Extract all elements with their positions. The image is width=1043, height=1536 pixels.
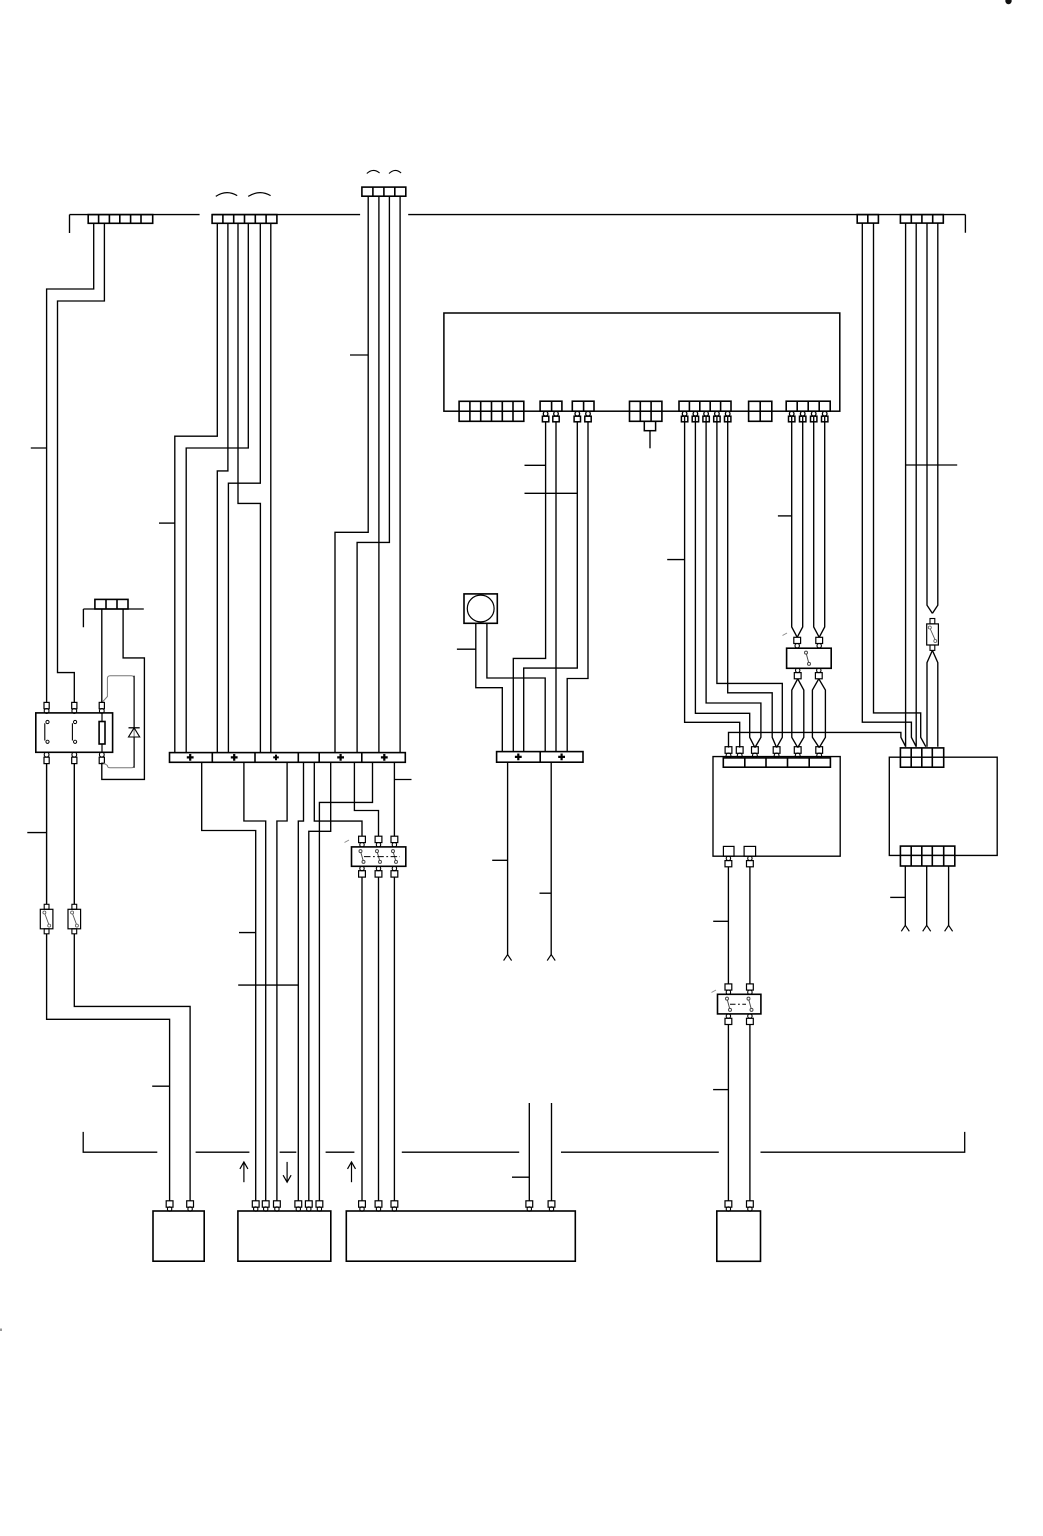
relay R3 terminals bottom <box>796 668 800 672</box>
wire fuse F3 split to BR <box>927 650 932 746</box>
ECU block B4 <box>630 401 662 421</box>
wire B5 pin4 to BL terminal T4 <box>717 417 782 748</box>
leader tick B5 pin1 wire <box>667 559 684 561</box>
relay R2 box <box>352 847 406 866</box>
wire BR out 1 open end <box>904 866 906 925</box>
BL bottom cells <box>723 846 734 856</box>
leader tick R2 out <box>394 779 411 781</box>
gauge M1 box <box>464 594 497 623</box>
wire C5 pin2 to BR cell2 <box>915 223 917 747</box>
wire B5 pin5 to BL terminal T4 <box>728 417 777 748</box>
wire J1-a to box G2 <box>202 762 256 1201</box>
leader line crossing wires <box>238 984 298 986</box>
wire BR out 3 open end <box>948 866 950 925</box>
connector block C3 above bus <box>362 187 406 196</box>
wire stub under C6 <box>83 609 143 627</box>
wire J2 right open end <box>550 762 552 954</box>
page mark left edge <box>0 1329 2 1332</box>
terminal above relay R1 pin1 <box>44 702 49 708</box>
relay R2 contacts <box>359 850 362 853</box>
wire stub from B4 <box>649 431 651 449</box>
J1 plus mark 3 <box>273 755 279 761</box>
leader tick BR wire <box>890 896 905 898</box>
terminal above relay R1 pin2 <box>72 702 77 708</box>
J1 plus mark 4 <box>337 754 344 761</box>
wire J1-g to relay R2 pin2 <box>354 762 378 836</box>
diode D1 <box>133 676 135 728</box>
G1 terminals <box>166 1201 173 1207</box>
relay R3 terminals top <box>794 637 801 643</box>
relay R2 link dash-dot <box>364 856 400 858</box>
wire J1-h to box G2 <box>319 762 372 1201</box>
wire stub to G3 b <box>551 1103 553 1201</box>
leader tick G1 wire <box>152 1085 169 1087</box>
terminal above relay R1 pin3 <box>99 702 104 708</box>
wire R4 to box G4 pin1 <box>727 1025 729 1201</box>
ECU block B3 <box>572 401 594 411</box>
J2 plus mark 2 <box>558 754 565 761</box>
fuse F3 <box>930 619 935 624</box>
wire BL to relay R4 pin1 <box>727 867 729 984</box>
wire R2 pin1 to box G3 <box>361 877 363 1201</box>
ECU B2 terminals <box>543 411 548 416</box>
terminal below relay R1 pin1 <box>44 752 49 757</box>
leader tick wire 174.8 <box>159 522 175 524</box>
connector block C6 3-cell <box>95 599 128 609</box>
wire C5 pin1 to BR cell1 <box>905 223 907 747</box>
wire B7 pin3 to relay R3 <box>814 417 820 637</box>
wire C2 pin3 jog <box>238 223 260 752</box>
gauge M1 circle <box>467 595 494 622</box>
wire C2 pin6 <box>270 223 272 752</box>
wire C5 pin4 to fuse F3 <box>932 223 937 613</box>
ECU block B2 <box>540 401 562 411</box>
terminal below relay R1 pin3 <box>99 752 104 757</box>
box G1 <box>153 1211 204 1261</box>
wire fuse F1 to ground box G1 <box>47 934 170 1201</box>
wire C3 pin4 <box>399 196 401 752</box>
fuse F1 <box>46 764 48 905</box>
relay R4 terminals top <box>725 984 732 990</box>
relay R1 contact 1 <box>46 720 49 723</box>
leader tick wire 546 <box>525 464 546 466</box>
wire C2 pin4 jog <box>186 223 248 752</box>
wire J1-e to relay R2 pin1 <box>314 762 362 836</box>
wire stub to G3 a <box>528 1103 530 1201</box>
inline connector J1 <box>170 753 406 763</box>
connector block C4 on bus right <box>857 215 878 224</box>
wire R3 out split right <box>812 679 819 748</box>
wire BR out 2 open end <box>926 866 928 925</box>
tiny mark near R3 <box>783 633 788 636</box>
wire top bus segment 1 <box>70 215 200 233</box>
wire C6 pin1 down to relay R1 coil <box>101 609 103 702</box>
relay R1 coil resistor <box>99 722 105 745</box>
wire R3 out split left <box>792 679 798 748</box>
wire J1-d to box G2 <box>298 762 303 1201</box>
direction arrow down <box>286 1162 288 1182</box>
box G3 <box>346 1211 575 1261</box>
wire B5 pin3 to BL terminal T3 <box>706 417 761 748</box>
wire C4 pin1 to BR <box>862 223 916 747</box>
leader tick BL wire <box>713 920 728 922</box>
wire C2 pin1 jog <box>175 223 218 752</box>
wire B2 pin2 to row J2 <box>555 422 557 752</box>
relay R4 terminals bottom <box>726 1014 730 1018</box>
wire R2 pin2 to box G3 <box>378 877 380 1201</box>
leader tick wire 507 <box>492 859 507 861</box>
leader tick C3 pin1 wire <box>350 354 368 356</box>
G3 terminals <box>359 1201 366 1207</box>
wire J1-f to box G2 <box>309 762 331 1201</box>
direction arrow up 2 <box>351 1162 353 1182</box>
leader tick G4 wire <box>713 1089 728 1091</box>
connector block C1 on bus <box>88 215 153 224</box>
BR top connector <box>900 748 943 767</box>
wire B7 pin2 to relay R3 <box>797 417 803 637</box>
wire C2 pin5 jog <box>228 223 260 752</box>
ECU B5 terminals <box>682 411 687 416</box>
relay R1 box <box>36 713 113 752</box>
wire top bus segment 2 <box>212 214 360 216</box>
ECU B7 terminals <box>789 411 794 416</box>
J1 plus mark 5 <box>381 754 388 761</box>
wire gauge pin1 to row J2 <box>476 623 503 751</box>
wire J2 left open end <box>507 762 509 954</box>
J1 plus mark 2 <box>231 754 238 761</box>
relay R4 box <box>718 994 761 1014</box>
relay R1 contact 2 <box>74 720 77 723</box>
wire top bus segment 3 <box>408 215 965 233</box>
ECU block B6 <box>749 401 772 421</box>
wire C3 pin2 <box>378 196 380 752</box>
ECU block B5 <box>679 401 731 411</box>
inline connector J2 <box>497 752 583 763</box>
wire B3 pin2 jog to row J2 <box>567 422 588 752</box>
G4 terminals <box>725 1201 732 1207</box>
wire C3 pin3 jog <box>357 196 389 752</box>
wire gauge pin2 to row J2 <box>487 623 545 751</box>
leader tick B7 pin1 wire <box>778 515 792 517</box>
wire C6 pin3 to relay R1 lower terminal <box>102 609 145 779</box>
ECU block B7 <box>786 401 830 411</box>
terminal below relay R1 pin2 <box>72 752 77 757</box>
BL top connector row <box>723 758 830 767</box>
ECU block B1 <box>459 401 524 421</box>
box G2 <box>238 1211 331 1261</box>
wire B2 pin1 jog to row J2 <box>513 422 545 752</box>
wire C2 pin2 jog <box>217 223 228 752</box>
grommet arcs above C3 <box>367 170 380 173</box>
box BR outline <box>889 757 997 855</box>
bypass loop wire around diode D1 <box>103 676 135 768</box>
wire J1-b to box G2 <box>244 762 266 1201</box>
relay R2 terminals top <box>359 836 366 842</box>
wire C1 pin2 to relay R1 <box>58 223 105 702</box>
J2 plus mark 1 <box>515 754 522 761</box>
connector block C5 on bus right <box>900 215 943 224</box>
wire B7 pin4 to relay R3 <box>819 417 825 637</box>
wire R4 to box G4 pin2 <box>749 1025 751 1201</box>
wire C4 pin2 to BR <box>874 223 926 747</box>
wire B5 pin2 to BL terminal T3 <box>695 417 755 748</box>
relay R2 terminals bottom <box>360 866 364 870</box>
leader line crossing wires 2 <box>525 492 578 494</box>
box BL outline <box>713 757 840 857</box>
grommet arcs above C2 <box>216 193 237 197</box>
ECU main box U1 <box>444 313 840 411</box>
tiny mark near R4 <box>712 990 717 993</box>
connector block C2 on bus <box>212 215 277 224</box>
J1 plus mark 1 <box>187 754 194 761</box>
tiny mark near R2 <box>345 840 350 843</box>
wire C5 pin3 to fuse F3 <box>927 223 932 613</box>
box G4 <box>717 1211 761 1261</box>
BL terminals T1-T6 <box>726 753 731 758</box>
direction arrow up 1 <box>243 1162 245 1182</box>
wire J1-c to box G2 <box>277 762 287 1201</box>
leader tick G3 wire <box>512 1176 529 1178</box>
section divider line with end ticks <box>83 1132 965 1152</box>
wire C3 pin1 jog <box>335 196 368 752</box>
fuse F2 <box>73 764 75 905</box>
relay R3 contact <box>805 651 808 654</box>
BR bottom connector <box>900 846 954 866</box>
ECU B3 terminals <box>575 411 580 416</box>
relay R4 contacts <box>726 997 729 1000</box>
leader tick wire 551 <box>540 892 552 894</box>
wire fuse F2 to ground box G1 <box>74 934 190 1201</box>
wire J1-i to relay R2 pin3 <box>393 762 395 836</box>
wire B3 pin1 jog to row J2 <box>524 422 578 752</box>
leader tick left wire <box>31 447 47 449</box>
relay R4 link dash-dot <box>730 1003 746 1005</box>
wire B7 pin1 to relay R3 <box>792 417 798 637</box>
leader line right <box>906 464 957 466</box>
leader tick fuse F1 wire <box>27 832 46 834</box>
ECU B4 pendant cell <box>644 421 655 430</box>
wire C1 pin1 to relay R1 <box>47 223 94 702</box>
wire R2 pin3 to box G3 <box>393 877 395 1201</box>
relay R3 box <box>787 648 832 668</box>
leader tick gauge wire <box>457 648 476 650</box>
wire BL T1 to BR cell1 <box>729 732 906 747</box>
wire BL to relay R4 pin2 <box>749 867 751 984</box>
G2 terminals <box>252 1201 259 1207</box>
page mark top right <box>1005 0 1011 4</box>
leader tick wire 255.7 <box>239 932 256 934</box>
BL bottom terminals <box>726 856 730 860</box>
wire B5 pin1 to BL terminal T2 <box>685 417 740 748</box>
